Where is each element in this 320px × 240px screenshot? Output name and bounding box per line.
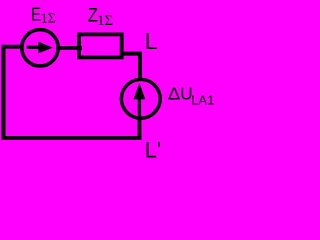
svg-text:L: L xyxy=(145,28,158,54)
svg-text:L': L' xyxy=(145,137,161,162)
svg-text:Δ: Δ xyxy=(168,84,180,104)
wire: between source E1S and box Z1S xyxy=(58,46,83,50)
source E1S: circle xyxy=(22,30,58,66)
wire: top-left horizontal from left rail to source E1S xyxy=(2,45,22,49)
svg-text:1Σ: 1Σ xyxy=(97,13,113,29)
arrow inside source dU_LA1: head xyxy=(134,83,146,100)
wire: from box Z1S right side to corner at node L xyxy=(122,52,143,56)
arrow inside source E1S: tail xyxy=(27,46,40,49)
wire: vertical from corner down to source dU xyxy=(138,52,142,80)
svg-text:LA1: LA1 xyxy=(191,92,214,107)
svg-text:1Σ: 1Σ xyxy=(41,12,56,27)
source dU_LA1: circle xyxy=(121,79,160,118)
wire: left vertical rail xyxy=(2,45,6,140)
impedance box Z1S xyxy=(79,34,122,57)
arrow inside source dU_LA1: tail xyxy=(138,98,141,117)
wire: vertical from source dU down to bottom rail xyxy=(138,116,142,140)
arrow inside source E1S: head xyxy=(38,42,52,54)
wire: bottom horizontal rail xyxy=(2,136,142,140)
